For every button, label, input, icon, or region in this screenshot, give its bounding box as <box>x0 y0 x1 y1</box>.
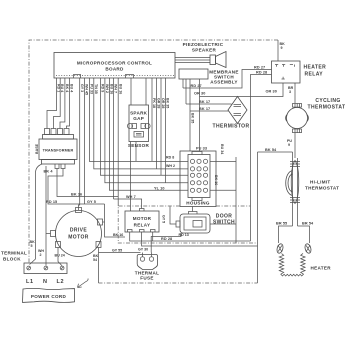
right of sensor bundle PK/GR/OR <box>151 78 153 161</box>
svg-text:ASSEMBLY: ASSEMBLY <box>210 80 238 85</box>
board pin stub wires : left bundle <box>47 78 57 129</box>
drive motor M1 <box>51 208 103 257</box>
cycling thermostat TH1 <box>286 98 346 133</box>
svg-text:RELAY: RELAY <box>134 223 151 228</box>
heater element terminals <box>276 243 312 254</box>
svg-text:MOTOR: MOTOR <box>133 216 152 221</box>
svg-text:BK 4: BK 4 <box>65 84 69 92</box>
svg-text:PK 18: PK 18 <box>152 98 156 108</box>
wire BR 3 relay to cycling thermostat <box>294 83 296 103</box>
wire GY 3 to drive motor top <box>79 78 80 210</box>
svg-text:SPEAKER: SPEAKER <box>192 48 217 53</box>
svg-text:PU 33: PU 33 <box>196 147 207 151</box>
wire N white from transformer area to terminal N <box>45 166 47 266</box>
svg-text:BASE: BASE <box>35 143 39 154</box>
door switch wires <box>170 207 176 225</box>
svg-text:BU 4: BU 4 <box>70 84 74 92</box>
strain relief arrow <box>78 279 89 288</box>
wire BK 5 transformer to terminal block L1 <box>30 164 43 265</box>
svg-text:GR 28: GR 28 <box>157 98 161 108</box>
motor left tab to N wire <box>46 233 51 235</box>
heater relay K2 <box>272 61 327 83</box>
svg-text:GY 30: GY 30 <box>138 248 148 252</box>
wires BK 17 to thermistor <box>186 79 232 151</box>
svg-text:BU 16: BU 16 <box>118 84 122 94</box>
svg-text:RD 28: RD 28 <box>161 237 172 241</box>
svg-text:THERMOSTAT: THERMOSTAT <box>305 186 339 191</box>
wire BK 9 from border to heater relay <box>277 40 279 61</box>
svg-text:9: 9 <box>281 46 283 50</box>
svg-text:DRIVE: DRIVE <box>70 228 88 234</box>
svg-text:BR 55: BR 55 <box>276 222 287 226</box>
svg-text:BLOCK: BLOCK <box>3 257 21 262</box>
svg-text:3: 3 <box>289 90 291 94</box>
svg-text:WH 7: WH 7 <box>114 84 118 93</box>
svg-text:OR 30: OR 30 <box>194 92 205 96</box>
svg-text:BK 16: BK 16 <box>214 175 218 185</box>
svg-text:GY 3: GY 3 <box>80 84 84 92</box>
wire BK 54 <box>258 151 293 153</box>
wire BU 24 motor to L2 <box>58 248 62 266</box>
svg-text:PIEZOELECTRIC: PIEZOELECTRIC <box>183 42 224 47</box>
svg-text:WH 7: WH 7 <box>126 195 136 199</box>
wire PU 9 cycling to hi-limit <box>294 133 296 158</box>
svg-text:CYCLING: CYCLING <box>315 98 340 104</box>
motor right tab wire <box>103 221 105 223</box>
thermistor RT1 <box>213 97 250 130</box>
housing right bus wires <box>210 157 236 243</box>
svg-text:HOUSING: HOUSING <box>186 201 210 206</box>
svg-text:MOTOR: MOTOR <box>68 235 89 241</box>
svg-text:SENSOR: SENSOR <box>128 143 150 148</box>
svg-text:HI-LIMIT: HI-LIMIT <box>310 180 331 185</box>
svg-text:RELAY: RELAY <box>305 72 324 78</box>
svg-text:SPARK: SPARK <box>130 111 148 116</box>
svg-text:9: 9 <box>288 143 290 147</box>
svg-text:BK 4: BK 4 <box>44 170 54 174</box>
svg-text:WH 2: WH 2 <box>166 164 175 168</box>
thermal fuse F1 <box>135 252 160 280</box>
hi-limit thermostat TH2 <box>286 152 339 226</box>
svg-text:OR 28: OR 28 <box>161 98 165 108</box>
terminal block TB1 <box>1 251 67 286</box>
wire GY 5 down right of motor to motor relay <box>105 204 126 237</box>
cabinet dash-dot border (top + left) <box>29 40 278 263</box>
power cord W1 <box>23 279 89 303</box>
sensor bottom wire to housing row <box>135 142 137 162</box>
heater element R1 zigzag <box>279 253 331 276</box>
svg-text:TRANSFORMER: TRANSFORMER <box>43 149 74 153</box>
svg-text:N: N <box>43 279 48 285</box>
svg-text:WH 45: WH 45 <box>85 84 89 95</box>
svg-text:RD 28: RD 28 <box>256 71 267 75</box>
svg-text:YL 10: YL 10 <box>154 186 165 190</box>
svg-text:BU 4: BU 4 <box>60 84 64 92</box>
svg-text:WH 2: WH 2 <box>105 84 109 93</box>
middle bundle wires to housing rows <box>89 78 188 161</box>
svg-text:BOARD: BOARD <box>105 67 124 72</box>
housing connector P1 <box>180 151 218 207</box>
sensor feed wires <box>131 78 146 105</box>
svg-text:BR 54: BR 54 <box>302 222 314 226</box>
svg-text:POWER CORD: POWER CORD <box>31 294 67 299</box>
svg-text:GY 5: GY 5 <box>87 200 96 204</box>
spark gap sensor A1 <box>127 105 150 148</box>
labels left bundle <box>57 84 89 95</box>
svg-text:TN 35: TN 35 <box>94 84 98 94</box>
relay output wires RD 28 <box>130 232 251 241</box>
motor relay K1 <box>125 209 159 233</box>
wire RD 27 membrane to heater relay <box>183 70 272 89</box>
door switch S2 <box>176 212 235 234</box>
svg-text:HEATER: HEATER <box>304 65 327 71</box>
wire OR 30 <box>200 79 284 97</box>
svg-text:L2: L2 <box>57 279 65 285</box>
svg-text:54: 54 <box>93 258 97 262</box>
membrane switch assembly S1 <box>179 69 239 85</box>
svg-text:BU 16: BU 16 <box>110 84 114 94</box>
svg-text:BK 54: BK 54 <box>265 148 277 152</box>
wire BK 16 transformer to relay area <box>57 169 118 197</box>
svg-text:RD 1: RD 1 <box>57 84 61 92</box>
svg-text:BK 16: BK 16 <box>71 193 82 197</box>
svg-text:RD 27: RD 27 <box>191 84 202 88</box>
sensor bottom wire to motor relay <box>130 142 132 212</box>
svg-text:BU 34: BU 34 <box>220 144 224 154</box>
svg-text:GAP: GAP <box>133 116 144 121</box>
svg-text:THERMOSTAT: THERMOSTAT <box>308 105 346 111</box>
piezoelectric speaker LS1 <box>175 42 226 68</box>
microprocessor control board U1 <box>54 53 175 79</box>
svg-text:RD 9: RD 9 <box>101 84 105 92</box>
svg-text:BU 24: BU 24 <box>55 254 65 258</box>
svg-text:BK 35: BK 35 <box>191 113 195 123</box>
svg-text:THERMISTOR: THERMISTOR <box>213 124 250 130</box>
wire WH 45 to GY5 line <box>83 78 85 204</box>
svg-text:BK 17: BK 17 <box>199 100 210 104</box>
svg-text:GY 55: GY 55 <box>112 249 122 253</box>
wire WH 7 relay top <box>114 199 142 209</box>
svg-text:RD 15: RD 15 <box>46 200 57 204</box>
svg-text:BK 17: BK 17 <box>199 107 210 111</box>
svg-text:FUSE: FUSE <box>140 276 153 281</box>
svg-text:L1: L1 <box>26 279 34 285</box>
svg-text:MICROPROCESSOR CONTROL: MICROPROCESSOR CONTROL <box>77 61 152 66</box>
transformer T1 <box>35 129 77 169</box>
svg-text:PU 33: PU 33 <box>90 84 94 94</box>
relay output wire GY 30 <box>152 232 154 241</box>
wire RD 15 / GY 5 transformer to motor top <box>48 169 105 205</box>
wire RD 28 heater relay down right side <box>251 75 272 242</box>
svg-text:RD 27: RD 27 <box>254 66 265 70</box>
svg-text:HEATER: HEATER <box>311 266 332 271</box>
svg-text:2: 2 <box>40 253 42 257</box>
wire motor bottom right to thermal fuse junction <box>99 248 141 284</box>
svg-text:BK 35: BK 35 <box>166 98 170 108</box>
svg-text:SWITCH: SWITCH <box>213 220 235 226</box>
svg-text:GY 5: GY 5 <box>162 215 166 223</box>
svg-text:TERMINAL: TERMINAL <box>1 251 27 256</box>
svg-text:RD 13: RD 13 <box>179 233 189 237</box>
svg-text:5: 5 <box>31 244 33 248</box>
wires BR 55 / BR 54 to heater <box>279 226 310 243</box>
svg-text:RD 8: RD 8 <box>166 156 174 160</box>
console dash-dot enclosure <box>118 206 257 243</box>
svg-text:OR 30: OR 30 <box>266 90 277 94</box>
